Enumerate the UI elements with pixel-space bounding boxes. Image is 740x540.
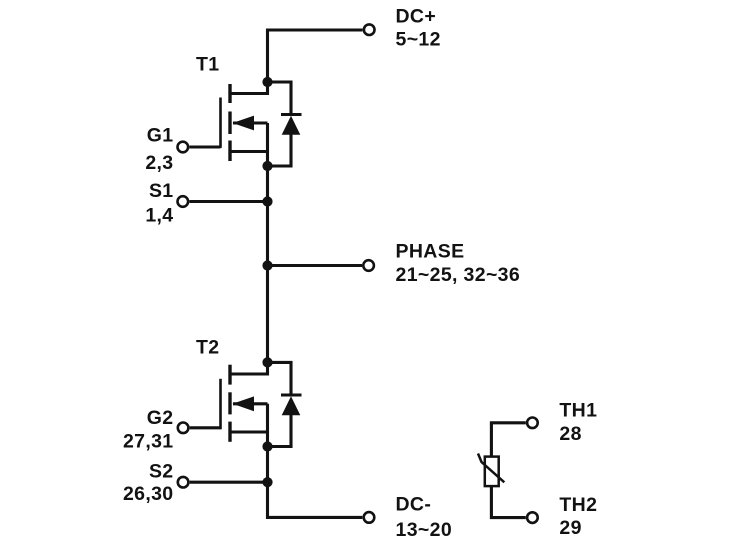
svg-text:27,31: 27,31 bbox=[123, 431, 174, 453]
svg-text:PHASE: PHASE bbox=[396, 240, 465, 262]
svg-text:13~20: 13~20 bbox=[396, 519, 453, 540]
svg-text:5~12: 5~12 bbox=[396, 29, 441, 51]
svg-text:TH1: TH1 bbox=[559, 400, 597, 422]
svg-text:26,30: 26,30 bbox=[123, 483, 174, 505]
svg-text:29: 29 bbox=[559, 517, 581, 539]
svg-text:DC+: DC+ bbox=[396, 6, 437, 28]
svg-text:S1: S1 bbox=[149, 180, 174, 202]
svg-text:TH2: TH2 bbox=[559, 494, 597, 516]
svg-text:28: 28 bbox=[559, 423, 581, 445]
svg-text:2,3: 2,3 bbox=[145, 152, 173, 174]
svg-text:T1: T1 bbox=[196, 54, 219, 76]
svg-text:G1: G1 bbox=[147, 125, 174, 147]
svg-text:G2: G2 bbox=[147, 407, 174, 429]
svg-text:DC-: DC- bbox=[396, 494, 432, 516]
svg-text:21~25, 32~36: 21~25, 32~36 bbox=[396, 264, 521, 286]
svg-text:1,4: 1,4 bbox=[145, 204, 173, 226]
svg-text:S2: S2 bbox=[149, 460, 174, 482]
svg-text:T2: T2 bbox=[196, 336, 219, 358]
